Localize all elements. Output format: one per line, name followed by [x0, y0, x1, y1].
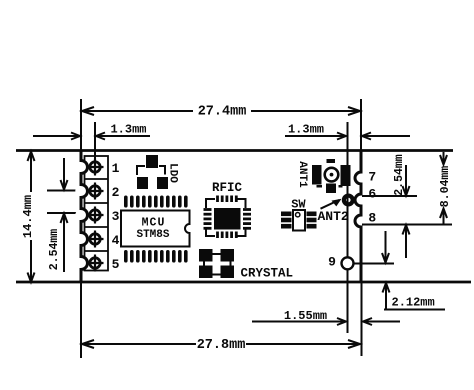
- RFIC pads: [204, 196, 252, 239]
- svg-text:27.8mm: 27.8mm: [197, 338, 246, 353]
- pin 2 hole: [87, 183, 104, 200]
- pin6 reference line right: [362, 195, 417, 197]
- RFIC body: [214, 208, 241, 230]
- svg-text:2.54mm: 2.54mm: [48, 229, 61, 271]
- ANT1 connector right pad: [341, 165, 351, 186]
- dimension 1.3mm left: [33, 133, 150, 140]
- svg-text:2: 2: [112, 185, 120, 200]
- MCU U1 bottom pad row: [124, 250, 188, 263]
- svg-text:1.55mm: 1.55mm: [284, 309, 327, 323]
- svg-text:9: 9: [328, 255, 336, 270]
- pin9 reference line right: [354, 263, 394, 265]
- ANT1 connector left pad: [312, 165, 322, 185]
- dimension 14.4mm left: [28, 152, 35, 283]
- ANT1 connector center dot: [330, 173, 334, 177]
- extension line left edge above board: [80, 99, 82, 150]
- LDO outline brackets: [137, 166, 165, 175]
- svg-text:2.12mm: 2.12mm: [392, 296, 435, 310]
- svg-text:STM8S: STM8S: [136, 229, 169, 241]
- extension line right edge above board: [360, 99, 362, 150]
- ANT1 connector feet: [317, 185, 323, 188]
- PCB left edge with castellated notches: [81, 151, 88, 283]
- crystal X1 courtyard box: [204, 254, 231, 275]
- crystal X1 pads: [199, 249, 234, 278]
- svg-text:CRYSTAL: CRYSTAL: [241, 267, 294, 281]
- extension line left edge below board: [80, 282, 82, 358]
- svg-text:1.3mm: 1.3mm: [110, 123, 146, 137]
- dimension 1.3mm right: [285, 133, 410, 140]
- svg-text:2.54mm: 2.54mm: [393, 154, 406, 196]
- svg-text:27.4mm: 27.4mm: [198, 105, 247, 120]
- MCU U1 body: [121, 211, 190, 247]
- ANT1 connector top bar: [327, 159, 336, 163]
- dimension 2.54mm left arrows: [61, 158, 68, 272]
- svg-text:14.4mm: 14.4mm: [21, 195, 35, 238]
- svg-text:8.04mm: 8.04mm: [439, 166, 452, 208]
- dimension 2.12mm arrows: [382, 231, 445, 310]
- svg-text:8: 8: [368, 211, 376, 226]
- svg-text:6: 6: [368, 187, 376, 202]
- castellation notch punches: [75, 161, 86, 268]
- ANT1 connector ring: [325, 168, 339, 182]
- switch SW pin1 dot: [296, 213, 300, 217]
- RFIC corner brackets: [206, 199, 246, 236]
- svg-text:4: 4: [112, 233, 120, 248]
- ANT2 pad ring pin 6: [344, 196, 353, 205]
- PCB top edge with extensions: [16, 149, 453, 152]
- pin3 reference line left: [47, 212, 80, 214]
- svg-text:1: 1: [112, 161, 120, 176]
- pin 5 hole: [87, 255, 104, 272]
- extension line x=347.5 (ANT2/pin9 column): [347, 122, 349, 333]
- pin 4 hole: [87, 231, 104, 248]
- PCB bottom edge with extensions: [16, 281, 471, 284]
- svg-text:ANT2: ANT2: [318, 209, 349, 224]
- svg-text:LDO: LDO: [167, 163, 179, 183]
- PCB right edge with castellated notches: [355, 151, 361, 283]
- dimension 2.54mm right arrows: [403, 165, 410, 258]
- svg-text:3: 3: [112, 209, 120, 224]
- extension line right edge below board: [361, 282, 363, 356]
- svg-text:ANT1: ANT1: [296, 161, 308, 188]
- dimension 27.4mm line: [82, 107, 360, 115]
- pin header box left: [85, 156, 109, 271]
- dimension 8.04mm right arrows: [440, 152, 447, 224]
- svg-text:7: 7: [368, 170, 376, 185]
- pin2 reference line left: [47, 190, 80, 192]
- svg-text:1.3mm: 1.3mm: [288, 123, 324, 137]
- pin 3 hole: [87, 207, 104, 224]
- pin8 reference line right: [362, 224, 452, 226]
- ANT2 arrow: [321, 199, 342, 209]
- pin 1 hole: [87, 159, 104, 176]
- LDO pads: [137, 155, 168, 189]
- svg-text:SW: SW: [291, 198, 306, 212]
- ANT1 connector bottom pad: [326, 184, 336, 194]
- svg-text:MCU: MCU: [142, 217, 166, 230]
- svg-text:5: 5: [112, 257, 120, 272]
- dimension 27.8mm bottom: [82, 340, 360, 348]
- dimension 1.55mm bottom: [252, 318, 400, 325]
- svg-text:RFIC: RFIC: [212, 181, 243, 195]
- extension line pin column x=95 above board: [94, 122, 96, 160]
- switch SW pads: [281, 212, 317, 229]
- switch SW body: [293, 210, 305, 231]
- MCU U1 top pad row: [124, 196, 188, 208]
- pin 9 hole: [342, 257, 354, 269]
